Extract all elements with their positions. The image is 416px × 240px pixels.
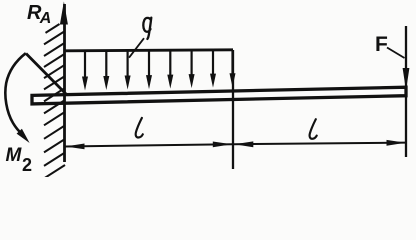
wall hatch line 7 [44, 88, 65, 101]
wall hatch line 13 [44, 165, 65, 178]
wall face line / R_A arrow shaft [63, 4, 66, 162]
load arrow 1 head [82, 77, 88, 91]
moment M2 arc [5, 53, 25, 131]
dim arrowhead right-left [234, 141, 253, 147]
load arrow 5 head [167, 75, 173, 89]
wall hatch line 4 [44, 54, 65, 67]
label l left span [136, 118, 143, 138]
load arrow 3 shaft [126, 50, 128, 77]
load arrow 7 head [210, 74, 216, 88]
F leader line [387, 48, 405, 59]
wall hatch line 10 [44, 125, 65, 138]
moment M2 arrowhead [17, 129, 30, 143]
load arrow 8 shaft [231, 50, 233, 75]
force F arrowhead [403, 68, 410, 91]
wall hatch line 11 [44, 139, 65, 152]
dim arrowhead left-right [213, 142, 232, 148]
svg-text:F: F [375, 33, 388, 56]
beam (fixed cantilever bar) [32, 87, 406, 104]
load arrow 8 head [230, 73, 236, 87]
load arrow 4 head [146, 75, 152, 89]
load arrow 1 shaft [84, 50, 86, 78]
label l right span [310, 119, 317, 139]
load arrow 3 head [125, 76, 131, 90]
load arrow 2 shaft [105, 50, 107, 78]
dim arrowhead left-left [65, 144, 84, 150]
load arrow 5 shaft [169, 50, 171, 76]
wall hatch line 12 [44, 153, 65, 166]
svg-text:M: M [6, 145, 23, 166]
wall hatch line 2 [44, 31, 65, 44]
q leader line [129, 38, 144, 58]
wall hatch line 9 [44, 112, 65, 125]
wall hatch line 1 [46, 24, 60, 33]
wall hatch line 5 [44, 65, 65, 78]
extension line at mid-span (node B) [232, 50, 234, 169]
wall hatch line 8 [44, 100, 65, 113]
label q [143, 18, 151, 39]
reaction arrowhead R_A [60, 2, 68, 25]
load arrow 2 head [103, 76, 109, 90]
force F shaft / right extension line [405, 26, 407, 157]
distributed load top line q [65, 50, 234, 51]
moment M2 radius line [26, 54, 67, 95]
wall hatch line 6 [44, 76, 65, 89]
load arrow 6 shaft [191, 50, 193, 76]
load arrow 6 head [189, 74, 195, 88]
dim arrowhead right-right [387, 140, 406, 146]
svg-text:A: A [39, 10, 52, 27]
load arrow 7 shaft [212, 50, 214, 75]
svg-text:2: 2 [22, 155, 32, 175]
dimension line right span [234, 143, 406, 145]
load arrow 4 shaft [148, 50, 150, 77]
wall hatch line 3 [44, 43, 65, 56]
dimension line left span [66, 144, 233, 146]
